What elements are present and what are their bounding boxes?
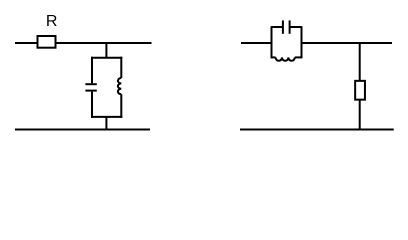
wire: left circuit top rail, right segment [56, 42, 152, 44]
wire: branch stub from top rail to resistor [359, 43, 361, 81]
wire: LC block top branch, right part [290, 26, 302, 28]
wire: right circuit bottom rail [240, 129, 394, 131]
wire: LC block bottom branch, right part [295, 56, 302, 58]
wire: tank left branch lower [91, 92, 93, 118]
capacitor (right circuit), right plate [289, 20, 291, 33]
wire: left circuit top rail, left segment [15, 42, 38, 44]
wire: stub from top rail down to LC tank [105, 43, 107, 58]
wire: left circuit bottom rail [15, 129, 150, 131]
resistor R [38, 36, 56, 48]
wire: right circuit top rail, right segment [302, 42, 393, 44]
wire: tank right branch upper [120, 57, 122, 78]
capacitor C (left circuit), top plate [85, 83, 96, 85]
wire: right circuit top rail, left segment [241, 42, 272, 44]
wire: tank left branch upper [91, 57, 93, 83]
svg-text:R: R [46, 13, 58, 30]
inductor (right circuit) [276, 57, 295, 60]
capacitor (right circuit), left plate [282, 20, 284, 33]
resistor (right circuit) [355, 81, 365, 100]
wire: LC block top branch, left part [272, 26, 283, 28]
wire: LC block left vertical [271, 26, 273, 58]
wire: tank right branch lower [120, 94, 122, 118]
wire: stub from tank down to bottom rail [105, 117, 107, 130]
wire: branch stub from resistor to bottom rail [359, 100, 361, 130]
wire: LC block right vertical [301, 26, 303, 58]
inductor L (left circuit) [118, 78, 121, 94]
wire: LC block bottom branch, left part [272, 56, 276, 58]
capacitor C (left circuit), bottom plate [85, 90, 96, 92]
wire: LC tank top edge [91, 57, 122, 59]
wire: LC tank bottom edge [91, 116, 122, 118]
